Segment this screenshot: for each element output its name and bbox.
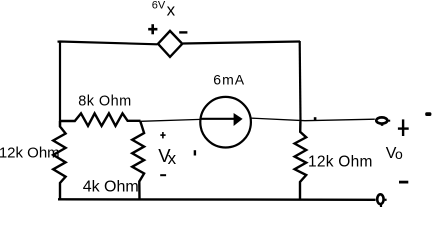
svg-text:x: x — [167, 1, 176, 20]
wire: thin node-row wire left of current source — [141, 119, 201, 121]
wire: thin node-row wire right of current source — [251, 118, 375, 121]
plus of dependent source — [148, 24, 157, 34]
resistor R1 8k (horizontal zigzag) — [59, 113, 141, 126]
junction tick on node row — [314, 117, 317, 120]
minus of dependent source — [179, 31, 187, 33]
svg-text:4k Ohm: 4k Ohm — [83, 179, 139, 196]
terminal: top output (open ellipse) — [376, 117, 387, 123]
stray mark near right edge — [425, 112, 431, 116]
wire: top-right horizontal — [183, 42, 300, 44]
svg-text:12k Ohm: 12k Ohm — [308, 154, 373, 171]
resistor R3 4k (vertical zigzag) — [132, 121, 144, 199]
svg-text:o: o — [395, 146, 403, 162]
svg-text:8k Ohm: 8k Ohm — [78, 94, 131, 110]
dependent source U1 (diamond, 6Vx) — [158, 31, 182, 57]
wire: right vertical rail — [299, 41, 302, 122]
wire: top-left horizontal from corner to dependent source — [58, 42, 158, 45]
svg-text:6V: 6V — [152, 0, 166, 12]
plus of Vx — [160, 132, 165, 138]
terminal: bottom output (open ellipse) — [377, 194, 383, 204]
minus of Vx — [160, 174, 166, 176]
svg-text:6mA: 6mA — [213, 71, 245, 87]
wire: bottom rail — [58, 198, 376, 201]
resistor R4 12k right (vertical zigzag) — [295, 122, 307, 200]
stray mark near current source — [194, 150, 196, 155]
wire: left vertical rail — [59, 41, 61, 127]
svg-text:x: x — [168, 149, 177, 168]
current source I1 (circle) — [200, 97, 251, 148]
plus of Vo — [398, 119, 409, 136]
svg-text:12k Ohm: 12k Ohm — [0, 144, 60, 161]
minus of Vo — [399, 181, 408, 184]
arrow of current source — [201, 118, 236, 120]
resistor R2 12k left (vertical zigzag) — [53, 121, 65, 199]
